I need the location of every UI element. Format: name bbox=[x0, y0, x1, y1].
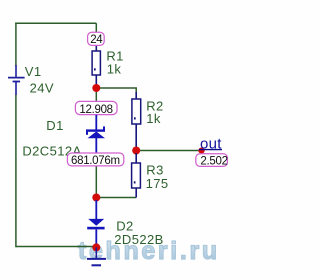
wire node2 to R3 bottom bbox=[96, 197, 136, 199]
value label 1k (R2) bbox=[146, 111, 161, 126]
wire D1 to node2 bbox=[95, 160, 97, 196]
node 24 voltage bubble bbox=[88, 32, 105, 46]
svg-text:24V: 24V bbox=[30, 80, 54, 95]
svg-text:12.908: 12.908 bbox=[79, 104, 112, 116]
diode D2 bbox=[87, 200, 104, 245]
wire left vertical upper bbox=[15, 23, 17, 67]
svg-text:1k: 1k bbox=[146, 111, 161, 126]
junction node 2 bbox=[92, 194, 100, 202]
svg-text:2D522B: 2D522B bbox=[114, 232, 163, 247]
svg-text:2.502: 2.502 bbox=[200, 155, 227, 167]
value label 2D522B bbox=[114, 232, 163, 247]
svg-text:D1: D1 bbox=[46, 118, 63, 133]
wire bottom horizontal bbox=[16, 246, 96, 248]
net name out bbox=[199, 135, 222, 152]
resistor R3 bbox=[132, 153, 141, 198]
junction node ground bbox=[92, 243, 100, 251]
wire node1 right to R2 bbox=[96, 88, 136, 93]
label R2 bbox=[146, 99, 163, 114]
label R3 bbox=[146, 163, 163, 178]
node 2.502 voltage bubble bbox=[196, 154, 228, 168]
label D1 bbox=[46, 118, 63, 133]
svg-text:175: 175 bbox=[146, 176, 169, 191]
node out pin dot bbox=[198, 148, 204, 154]
node 681.076m voltage bubble bbox=[67, 153, 123, 167]
junction node 1 bbox=[92, 84, 100, 92]
junction node 3 bbox=[132, 147, 140, 155]
svg-text:1k: 1k bbox=[107, 61, 122, 76]
battery V1 bbox=[8, 65, 25, 95]
value label 175 bbox=[146, 176, 169, 191]
node 12.908 voltage bubble bbox=[75, 101, 117, 115]
svg-text:681.076m: 681.076m bbox=[71, 155, 120, 167]
wire node1 to D1 bbox=[95, 90, 97, 117]
label R1 bbox=[106, 49, 123, 64]
zener diode D1 bbox=[86, 115, 105, 154]
value label 1k (R1) bbox=[107, 61, 122, 76]
wire node3 out bbox=[136, 150, 199, 152]
wire left vertical lower bbox=[15, 95, 17, 248]
wire top horizontal bbox=[15, 22, 96, 24]
svg-text:24: 24 bbox=[90, 34, 103, 46]
wire stub to node 24 bbox=[95, 23, 97, 46]
svg-text:V1: V1 bbox=[25, 64, 42, 79]
resistor R2 bbox=[132, 92, 141, 148]
label D2 bbox=[116, 219, 133, 234]
value label 24V bbox=[30, 80, 54, 95]
label V1 bbox=[25, 64, 42, 79]
value label D2C512A bbox=[22, 143, 81, 158]
resistor R1 bbox=[92, 44, 100, 85]
ground bbox=[87, 247, 106, 265]
